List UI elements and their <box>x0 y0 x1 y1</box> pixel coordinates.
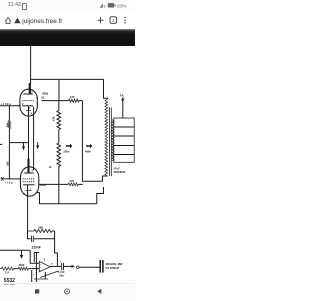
resistor 470 (upper) <box>69 99 79 102</box>
warning triangle icon <box>14 18 20 24</box>
address bar <box>0 12 135 29</box>
svg-text:470: 470 <box>70 95 75 99</box>
wire V2 plate line <box>39 183 69 185</box>
svg-text:+ l 4 a: + l 4 a <box>5 181 13 185</box>
leftover marks <box>4 283 9 286</box>
svg-text:460v: 460v <box>85 150 91 154</box>
wire 382 to corner <box>52 230 55 232</box>
wire to reservoir cap <box>79 266 99 268</box>
svg-text:7: 7 <box>51 263 53 266</box>
T1 secondary terminal box <box>114 118 134 162</box>
left edge tick <box>0 143 2 145</box>
wire grid input to V1 <box>0 105 21 107</box>
recents square button <box>35 289 39 293</box>
svg-text:32: 32 <box>41 96 44 100</box>
wire stack bottom drop <box>58 184 60 203</box>
svg-text:3300: 3300 <box>19 263 25 267</box>
svg-text:2: 2 <box>44 258 46 261</box>
resistor 382 cathode <box>28 229 53 232</box>
wire feedback vertical <box>55 231 58 266</box>
V2 grid1 (dashed) <box>23 181 36 183</box>
arrow output <box>72 265 75 268</box>
wire V2 cathode down <box>27 185 29 231</box>
wire stack to plate line <box>58 167 60 185</box>
svg-text:47uF: 47uF <box>114 166 120 170</box>
nav bar <box>0 283 135 301</box>
wire input line <box>0 249 30 251</box>
resistor 1M <box>0 267 14 270</box>
menu dots icon <box>124 17 126 19</box>
svg-text:1: 1 <box>29 106 31 110</box>
svg-text:9: 9 <box>37 96 39 100</box>
capacitor cathode bypass <box>28 231 31 239</box>
schematic svg <box>0 0 135 300</box>
V1 cathode bar <box>22 105 33 107</box>
wire 470 to drop <box>79 100 82 102</box>
svg-text:128a: 128a <box>40 183 46 187</box>
svg-text:KZ 2200uF: KZ 2200uF <box>106 266 120 270</box>
svg-text:230v: 230v <box>64 150 70 154</box>
annotation 230v <box>66 144 72 149</box>
node junction rail/R-drop <box>58 79 60 100</box>
input arrow <box>21 250 23 256</box>
V2 plate bar <box>24 172 34 174</box>
svg-text:1M: 1M <box>5 270 10 274</box>
wire bias tap horizontal <box>9 142 28 144</box>
wire cap to arrow <box>64 265 72 267</box>
wire grid-leak drop <box>8 106 10 179</box>
transformer T1 primary winding <box>105 99 108 176</box>
arrow marker on bias wire <box>23 143 25 148</box>
svg-text:-: - <box>40 263 41 267</box>
wire V1 anode-load node <box>42 100 69 102</box>
svg-text:1k: 1k <box>49 166 52 169</box>
svg-text:1: 1 <box>30 186 32 190</box>
plus icon <box>97 17 103 23</box>
star marker <box>0 177 4 181</box>
status bar app icon <box>22 3 28 9</box>
svg-text:2k2: 2k2 <box>5 161 9 166</box>
svg-text:+: + <box>59 260 61 264</box>
wire long drop to OPT <box>82 101 107 182</box>
wire 470 lower to drop <box>78 183 83 185</box>
arrow marker right <box>37 142 39 147</box>
wire V1 to V2 screen <box>33 107 35 171</box>
connector circle <box>76 266 79 269</box>
capacitor 2200uF bars <box>99 260 101 273</box>
resistor stack lower (vertical) <box>57 143 61 167</box>
pentode V2 envelope <box>20 167 38 196</box>
wire star to V2 grid <box>4 178 21 180</box>
home circle button <box>65 289 70 294</box>
bottom trimpot cluster <box>31 270 33 282</box>
battery icon <box>108 3 114 7</box>
V2 cathode bar <box>23 184 35 186</box>
svg-text:382: 382 <box>38 225 43 229</box>
resistor 3300 <box>18 267 28 270</box>
wire V1 cathode to V2 plate <box>28 106 30 159</box>
V1 plate bar <box>24 93 33 95</box>
black banner <box>0 29 135 46</box>
annotation 460v <box>86 144 92 149</box>
svg-text:+ l 10 a: + l 10 a <box>1 102 11 106</box>
svg-text:4.7uF: 4.7uF <box>58 270 65 274</box>
capacitor output 4.7uF <box>62 263 64 270</box>
status bar right icons <box>96 0 135 12</box>
V2 grid2 (dashed) <box>23 178 36 180</box>
op-amp U1 (5532) <box>39 262 50 272</box>
triode V1 envelope <box>20 89 37 116</box>
resistor grid-leak (vertical) <box>8 121 11 129</box>
svg-text:47k: 47k <box>51 116 55 121</box>
svg-text:FA: FA <box>120 93 125 97</box>
wire feedback riser <box>97 187 104 204</box>
wire V2 side to common <box>37 193 97 204</box>
wire U1 output <box>50 265 61 267</box>
resistor 470 (lower) <box>68 183 78 186</box>
wire 3300 to U1 minus <box>28 268 39 270</box>
svg-text:+: + <box>33 273 35 277</box>
svg-text:35v: 35v <box>59 274 64 278</box>
resistor stack upper (vertical) <box>58 101 60 111</box>
wire HT rail <box>31 78 104 80</box>
wire HT supply drop to V1 plate <box>30 46 32 84</box>
wire aux vertical <box>34 253 39 263</box>
status bar <box>0 0 135 12</box>
svg-text:NICHON. ME/: NICHON. ME/ <box>106 262 123 266</box>
T1 secondary winding <box>112 120 114 162</box>
wire input drop to opamp <box>30 250 39 263</box>
svg-text:Wh63E22: Wh63E22 <box>114 170 126 174</box>
svg-text:470: 470 <box>69 179 74 183</box>
svg-text:330k: 330k <box>42 91 49 95</box>
back triangle button <box>97 289 101 294</box>
wire rail to transformer primary <box>104 79 108 99</box>
svg-text:38k: 38k <box>5 122 9 127</box>
tab counter icon <box>110 17 117 24</box>
signal icon <box>100 3 104 7</box>
wire 1M to 3300 <box>14 268 19 270</box>
T1 core lines <box>109 108 111 177</box>
svg-text:220nF: 220nF <box>32 246 41 250</box>
FA output arrow <box>122 100 124 119</box>
wire stack middle <box>58 130 60 144</box>
home icon <box>5 18 11 24</box>
V1 grid (dashed) <box>22 100 34 102</box>
